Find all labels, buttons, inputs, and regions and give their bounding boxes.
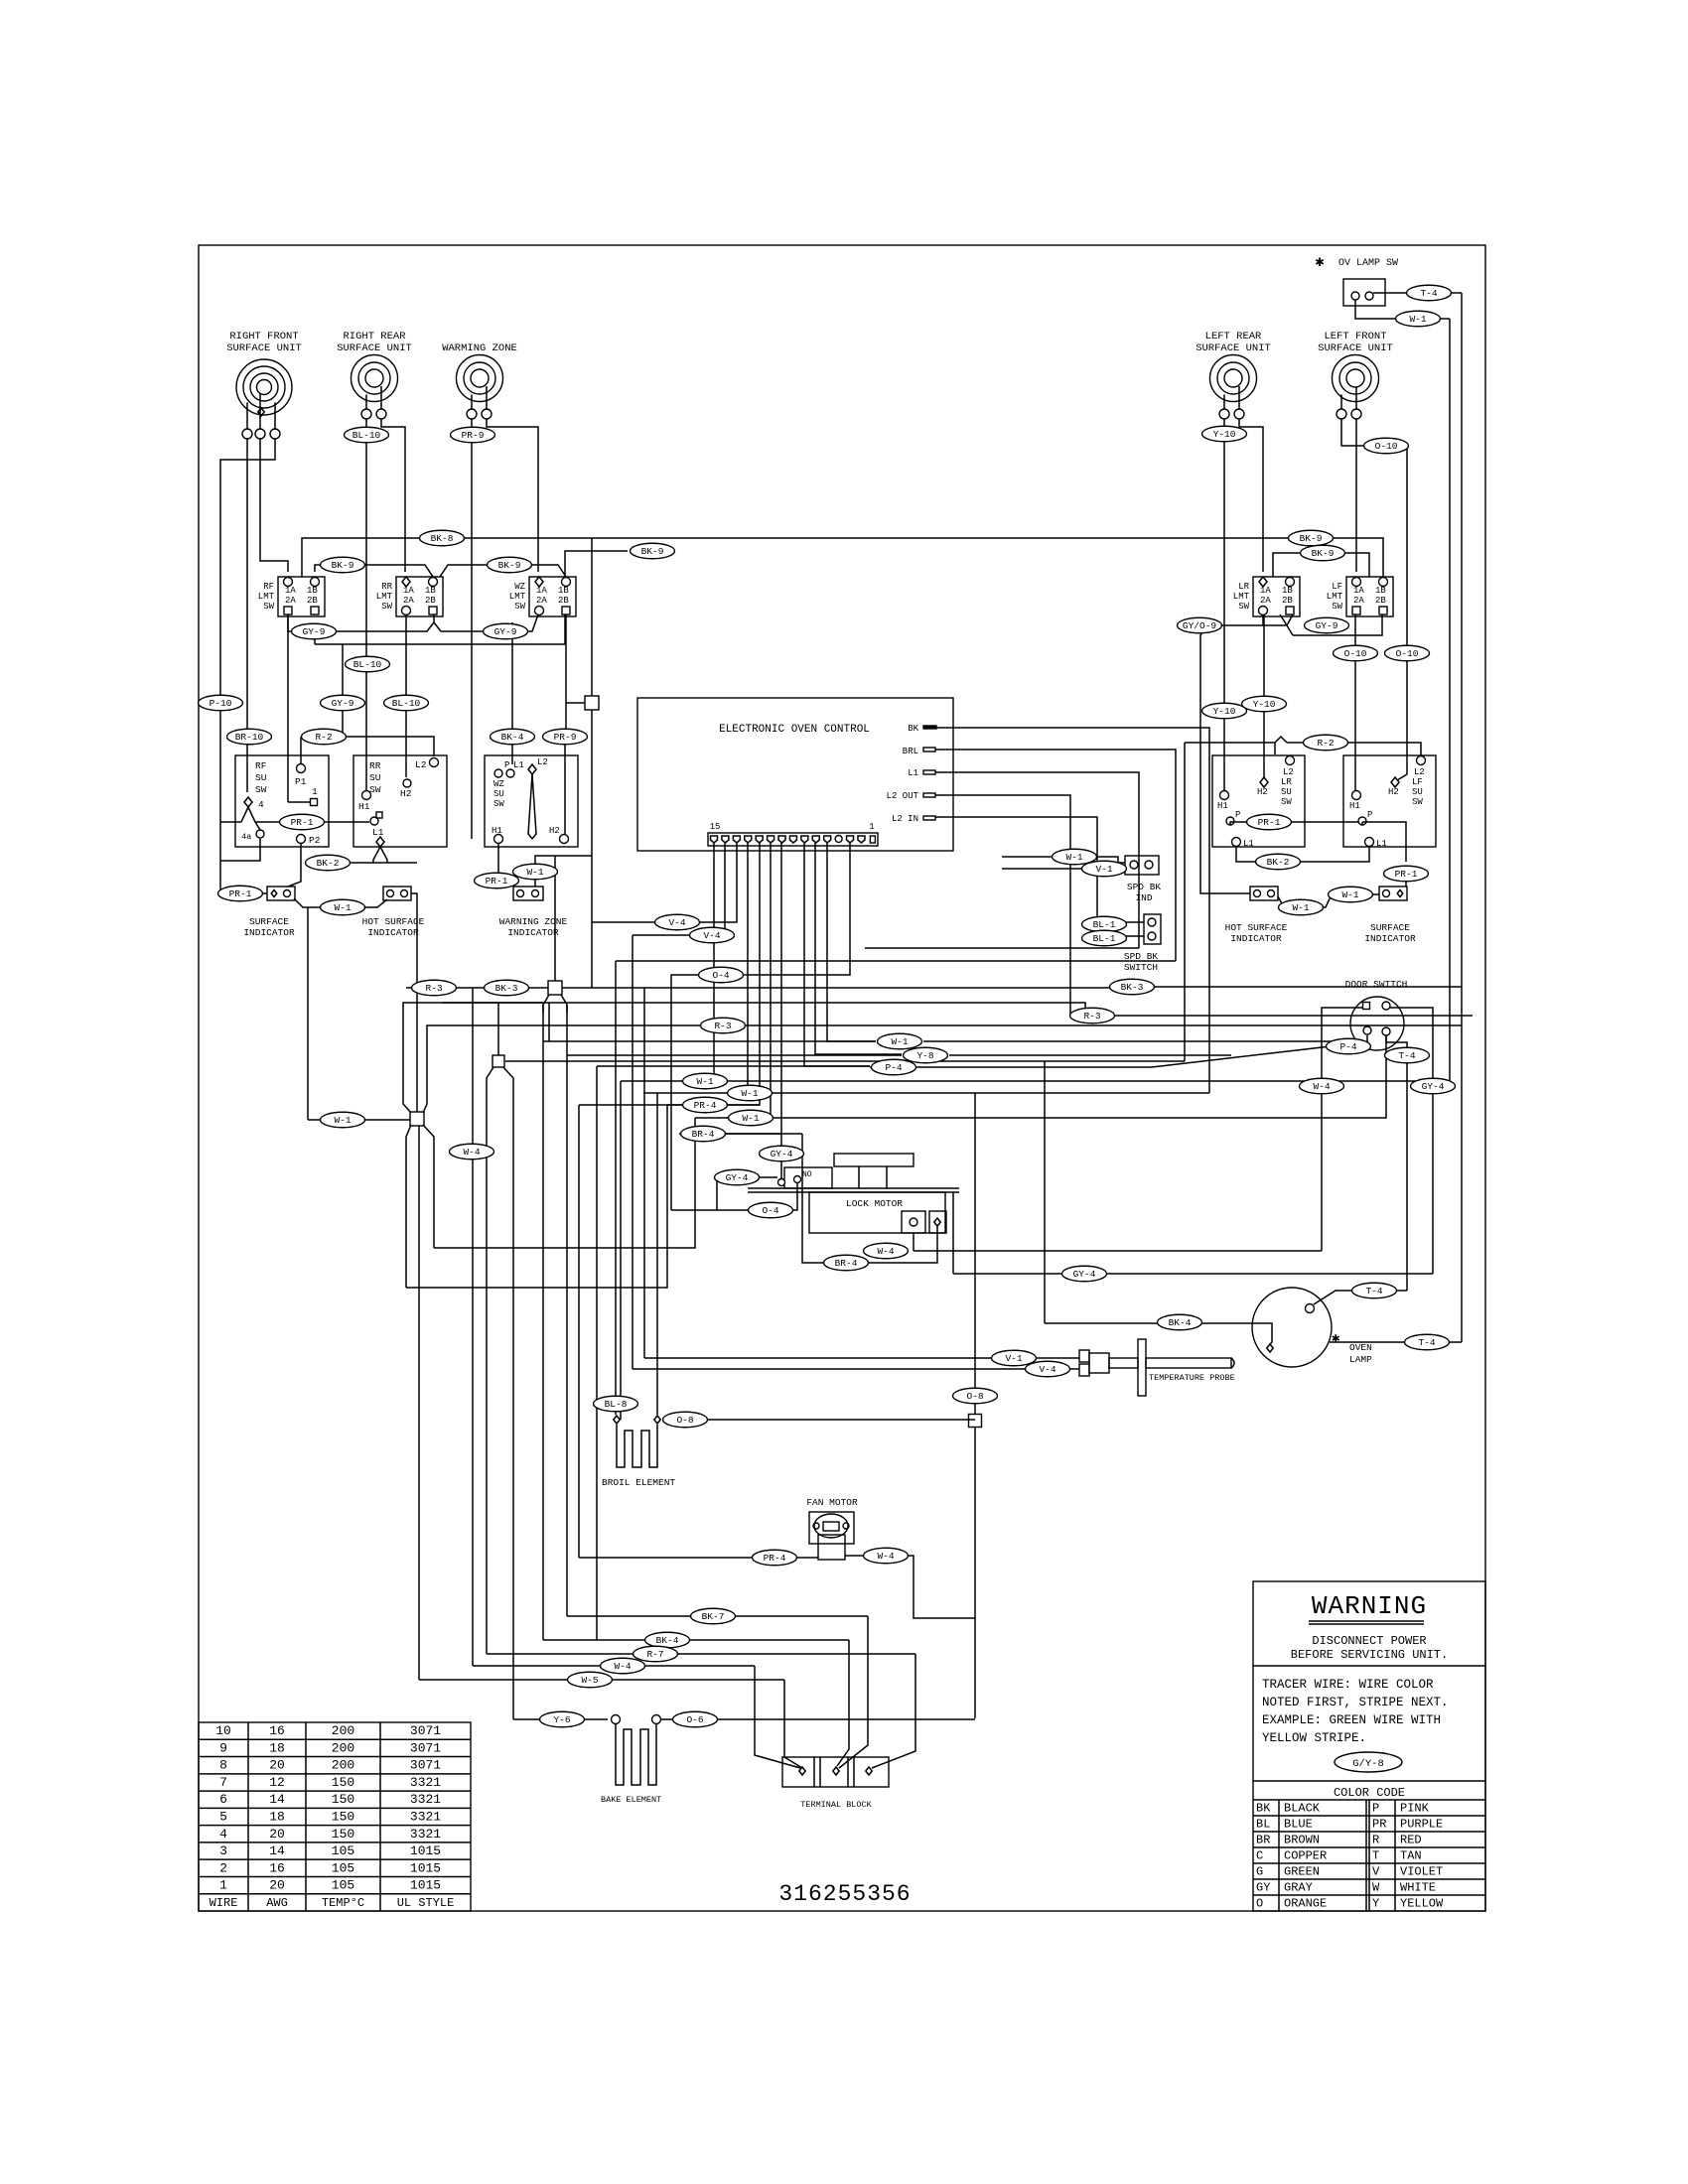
svg-text:BR-4: BR-4 xyxy=(692,1129,715,1140)
SPD BK SWITCH box xyxy=(1144,914,1161,944)
svg-text:NOTED FIRST, STRIPE NEXT.: NOTED FIRST, STRIPE NEXT. xyxy=(1262,1696,1449,1709)
svg-text:150: 150 xyxy=(332,1810,354,1825)
wire WZ H1 to indicator xyxy=(497,844,499,887)
wire PR-1 long line through RF RR xyxy=(220,821,241,823)
wire T-4 from ov lamp sw xyxy=(1373,292,1462,294)
svg-text:3071: 3071 xyxy=(410,1740,441,1755)
svg-text:SW: SW xyxy=(1281,797,1292,807)
svg-text:2B: 2B xyxy=(1375,596,1386,606)
wire O-8 line xyxy=(654,1416,660,1424)
svg-text:VIOLET: VIOLET xyxy=(1400,1865,1443,1879)
wire LR LMT 2A bottom down xyxy=(1262,614,1264,625)
svg-text:SURFACE: SURFACE xyxy=(249,916,289,927)
wire V-4 line upper xyxy=(654,921,700,923)
svg-text:12: 12 xyxy=(269,1775,285,1790)
RF surface unit switch xyxy=(235,755,329,847)
wire O-6 line xyxy=(661,1718,975,1720)
wire rerouting horizontals xyxy=(406,1105,667,1288)
svg-text:BL-10: BL-10 xyxy=(353,659,382,670)
svg-text:BK-3: BK-3 xyxy=(1121,982,1144,993)
wire PR-9 second bus WZ LMT 2B to WZ SU SW H2 xyxy=(565,614,566,835)
svg-text:4a: 4a xyxy=(241,832,251,842)
svg-text:W: W xyxy=(1372,1881,1380,1895)
svg-text:105: 105 xyxy=(332,1843,354,1858)
svg-text:OVEN: OVEN xyxy=(1349,1342,1372,1353)
wire door switch TL pin W-4 xyxy=(1322,1008,1362,1251)
svg-text:1: 1 xyxy=(869,822,874,832)
svg-text:GY-9: GY-9 xyxy=(332,698,354,709)
svg-text:LMT: LMT xyxy=(376,592,393,602)
svg-text:1A: 1A xyxy=(536,586,547,596)
svg-text:O-10: O-10 xyxy=(1396,648,1419,659)
wire R-2 right link xyxy=(1185,742,1275,744)
wire Y-10 second bus xyxy=(1263,614,1265,777)
svg-text:L2: L2 xyxy=(537,757,548,767)
wire RF P1 up to R-2 xyxy=(300,737,302,764)
svg-text:PR-4: PR-4 xyxy=(694,1100,717,1111)
wire LF LMT 2A bottom to O-10 bus down xyxy=(1354,614,1356,790)
svg-text:316255356: 316255356 xyxy=(778,1881,911,1907)
wire WZ SU SW L2 internals xyxy=(528,774,532,839)
wire WZ coil right lead to WZ LMT 1A xyxy=(487,419,538,572)
svg-text:RF: RF xyxy=(255,760,267,771)
svg-text:L2 OUT: L2 OUT xyxy=(887,791,919,801)
svg-text:SW: SW xyxy=(514,602,525,612)
wire RF terminal 1 link xyxy=(288,801,310,803)
svg-text:WARMING ZONE: WARMING ZONE xyxy=(442,342,517,354)
svg-text:T-4: T-4 xyxy=(1365,1286,1382,1297)
wire BK-9 right link xyxy=(1273,553,1369,577)
svg-text:PR-1: PR-1 xyxy=(291,817,314,828)
wire GY-4 left to NO xyxy=(717,1176,777,1178)
svg-text:LEFT REAR: LEFT REAR xyxy=(1205,331,1262,342)
wire GY-9 second bus xyxy=(315,614,565,644)
svg-text:O-4: O-4 xyxy=(762,1205,778,1216)
svg-text:3071: 3071 xyxy=(410,1723,441,1738)
wire EOC pin13 drop xyxy=(700,843,737,922)
wire RF coil mid lead to RF LMT 1A xyxy=(260,439,288,572)
svg-text:5: 5 xyxy=(219,1810,227,1825)
svg-text:RR: RR xyxy=(381,582,392,592)
svg-text:W-1: W-1 xyxy=(1292,902,1309,913)
wire W-1 right indicators xyxy=(1278,894,1379,907)
wire RR L1 legs to BK-2 xyxy=(373,847,380,863)
svg-text:L1: L1 xyxy=(908,768,918,778)
svg-text:L2 IN: L2 IN xyxy=(892,814,918,824)
svg-text:LMT: LMT xyxy=(258,592,275,602)
wire vertical 571 down to BK-7 line xyxy=(566,1005,568,1616)
hot surface indicator right xyxy=(1250,887,1278,900)
RR surface unit switch xyxy=(353,755,447,847)
svg-text:O-8: O-8 xyxy=(966,1391,983,1402)
svg-text:BK-2: BK-2 xyxy=(1267,857,1290,868)
wire RR coil left lead BL-10 bus to RR SU SW H1 xyxy=(365,419,367,790)
svg-text:BK-9: BK-9 xyxy=(1312,548,1335,559)
svg-text:LMT: LMT xyxy=(1327,592,1343,602)
wire V-1 V-4 to probe xyxy=(644,1357,1079,1359)
svg-text:RR: RR xyxy=(369,760,381,771)
svg-text:3321: 3321 xyxy=(410,1827,441,1842)
svg-text:P1: P1 xyxy=(295,776,307,787)
svg-text:V-4: V-4 xyxy=(703,930,720,941)
wire V-1 vertical xyxy=(643,988,645,1358)
svg-text:2A: 2A xyxy=(536,596,547,606)
wire BK-8 long bus xyxy=(302,538,1383,577)
svg-text:18: 18 xyxy=(269,1810,285,1825)
wire W-1 line 4 xyxy=(681,1080,1450,1082)
svg-text:105: 105 xyxy=(332,1878,354,1893)
wire GY-4 to NO xyxy=(780,1134,782,1178)
svg-text:W-4: W-4 xyxy=(463,1147,480,1158)
svg-text:H1: H1 xyxy=(1217,801,1228,811)
svg-text:SW: SW xyxy=(263,602,274,612)
svg-text:1A: 1A xyxy=(1260,586,1271,596)
svg-text:SURFACE UNIT: SURFACE UNIT xyxy=(226,342,302,354)
svg-text:LR: LR xyxy=(1281,777,1292,787)
svg-text:SW: SW xyxy=(255,784,267,795)
svg-text:R-3: R-3 xyxy=(1083,1011,1100,1022)
svg-text:BK: BK xyxy=(1256,1802,1271,1816)
svg-text:INDICATOR: INDICATOR xyxy=(1230,933,1282,944)
wire L2 IN pin run xyxy=(935,817,1097,918)
wire W-1 warning zone xyxy=(535,856,592,887)
svg-text:R-3: R-3 xyxy=(425,983,442,994)
svg-text:3071: 3071 xyxy=(410,1758,441,1773)
wire W-4 vertical xyxy=(472,988,474,1666)
wire BK-3 horizontal xyxy=(865,947,1139,949)
svg-text:H1: H1 xyxy=(358,801,370,812)
svg-text:14: 14 xyxy=(269,1792,285,1807)
svg-text:COPPER: COPPER xyxy=(1284,1849,1327,1863)
svg-text:2A: 2A xyxy=(1353,596,1364,606)
wire vertical 547 down to BK-4 line xyxy=(542,1005,544,1640)
svg-text:W-1: W-1 xyxy=(1341,889,1358,900)
svg-text:H2: H2 xyxy=(400,788,412,799)
svg-text:V-4: V-4 xyxy=(1039,1364,1055,1375)
svg-text:BK-7: BK-7 xyxy=(702,1611,725,1622)
svg-text:P-10: P-10 xyxy=(210,698,232,709)
svg-text:G: G xyxy=(1256,1865,1263,1879)
RR limit switch xyxy=(396,577,443,616)
svg-text:R: R xyxy=(1372,1834,1379,1847)
svg-text:LMT: LMT xyxy=(1233,592,1250,602)
svg-text:LEFT FRONT: LEFT FRONT xyxy=(1324,331,1386,342)
svg-text:2A: 2A xyxy=(1260,596,1271,606)
wire W-1 line 6 xyxy=(727,1036,1386,1118)
svg-text:HOT SURFACE: HOT SURFACE xyxy=(1225,922,1288,933)
svg-text:LR: LR xyxy=(1238,582,1249,592)
svg-text:RIGHT REAR: RIGHT REAR xyxy=(343,331,406,342)
svg-text:1015: 1015 xyxy=(410,1878,441,1893)
svg-text:DOOR SWITCH: DOOR SWITCH xyxy=(1345,979,1408,990)
svg-text:O-6: O-6 xyxy=(686,1714,703,1725)
svg-text:WARNING: WARNING xyxy=(1312,1591,1427,1621)
svg-text:GY/O-9: GY/O-9 xyxy=(1183,620,1217,631)
svg-text:LAMP: LAMP xyxy=(1349,1354,1372,1365)
svg-text:GRAY: GRAY xyxy=(1284,1881,1313,1895)
wire V-4 line lower xyxy=(633,934,725,936)
svg-text:2A: 2A xyxy=(285,596,296,606)
svg-text:Y-10: Y-10 xyxy=(1213,706,1236,717)
svg-text:R-3: R-3 xyxy=(714,1021,731,1031)
wire W-1 line mid xyxy=(543,1040,876,1042)
wire L2 OUT pin run xyxy=(935,795,1070,1016)
svg-text:1B: 1B xyxy=(425,586,436,596)
svg-text:TAN: TAN xyxy=(1400,1849,1422,1863)
svg-text:FAN MOTOR: FAN MOTOR xyxy=(806,1497,858,1508)
wire BK-9 bus left xyxy=(315,565,433,577)
svg-text:1B: 1B xyxy=(1282,586,1293,596)
svg-text:SU: SU xyxy=(1412,787,1423,797)
wire EOC pin6 drop xyxy=(827,843,876,1041)
wire GY/O-9 into hot surface ind xyxy=(1200,887,1250,893)
svg-text:3321: 3321 xyxy=(410,1810,441,1825)
wire W-4 under lock motor xyxy=(913,1233,914,1251)
wire RF coil left lead to P-10 bus xyxy=(220,439,247,887)
svg-text:OV LAMP SW: OV LAMP SW xyxy=(1338,258,1398,269)
svg-text:BK-9: BK-9 xyxy=(332,560,354,571)
wire LR coil right lead to LR LMT 1A xyxy=(1239,419,1263,572)
svg-text:BL-10: BL-10 xyxy=(392,698,421,709)
svg-text:BL: BL xyxy=(1256,1818,1270,1832)
svg-text:1A: 1A xyxy=(1353,586,1364,596)
svg-text:SURFACE: SURFACE xyxy=(1370,922,1410,933)
svg-text:BL-10: BL-10 xyxy=(352,430,381,441)
svg-text:200: 200 xyxy=(332,1723,354,1738)
svg-text:2B: 2B xyxy=(425,596,436,606)
wire RF 4a drop xyxy=(220,839,260,861)
wire GY-9 bus down mid xyxy=(342,644,344,737)
svg-text:W-4: W-4 xyxy=(1313,1081,1330,1092)
svg-text:H2: H2 xyxy=(1388,787,1399,797)
svg-text:W-5: W-5 xyxy=(581,1675,598,1686)
svg-text:ORANGE: ORANGE xyxy=(1284,1897,1327,1911)
svg-text:GY: GY xyxy=(1256,1881,1270,1895)
svg-text:BLACK: BLACK xyxy=(1284,1802,1321,1816)
svg-text:NO: NO xyxy=(802,1170,812,1179)
svg-text:1B: 1B xyxy=(1375,586,1386,596)
svg-text:BK-8: BK-8 xyxy=(431,533,454,544)
svg-text:GREEN: GREEN xyxy=(1284,1865,1320,1879)
lock motor cam xyxy=(834,1154,914,1166)
svg-text:T-4: T-4 xyxy=(1398,1050,1415,1061)
svg-text:BK-3: BK-3 xyxy=(495,983,518,994)
WZ limit switch xyxy=(529,577,576,616)
wire T-4 to oven lamp xyxy=(1314,1291,1407,1304)
svg-text:BK-2: BK-2 xyxy=(317,858,340,869)
wire EOC pin9 drop xyxy=(723,843,781,1134)
svg-text:BK-9: BK-9 xyxy=(498,560,521,571)
svg-text:W-1: W-1 xyxy=(742,1113,759,1124)
svg-text:W-1: W-1 xyxy=(334,1115,351,1126)
broil element xyxy=(617,1425,657,1467)
svg-text:GY-4: GY-4 xyxy=(726,1172,749,1183)
wire vertical 1193 xyxy=(1184,743,1186,1061)
svg-text:O-10: O-10 xyxy=(1344,648,1367,659)
svg-text:RIGHT FRONT: RIGHT FRONT xyxy=(229,331,298,342)
svg-text:L2: L2 xyxy=(415,759,427,770)
svg-text:SPD BK: SPD BK xyxy=(1124,951,1159,962)
svg-text:PR-1: PR-1 xyxy=(1258,817,1281,828)
wire R-7 line xyxy=(487,1653,915,1655)
svg-text:✱: ✱ xyxy=(1332,1331,1340,1347)
svg-text:4: 4 xyxy=(219,1827,227,1842)
svg-text:L1: L1 xyxy=(372,827,384,838)
svg-text:O: O xyxy=(1256,1897,1263,1911)
svg-text:P-4: P-4 xyxy=(1339,1041,1356,1052)
svg-text:1: 1 xyxy=(219,1878,227,1893)
svg-text:SW: SW xyxy=(1238,602,1249,612)
wire PR-1 link LR P to LF P xyxy=(1230,822,1234,825)
svg-text:✱: ✱ xyxy=(1315,254,1324,271)
svg-text:W-1: W-1 xyxy=(526,867,543,878)
wire GY-9 bus left xyxy=(288,614,538,631)
svg-text:PR-9: PR-9 xyxy=(554,732,577,743)
wire W-1 horizontal to junction A xyxy=(308,1119,410,1121)
wire gauge table xyxy=(199,1722,471,1911)
oven lamp xyxy=(1252,1288,1332,1367)
svg-text:WZ: WZ xyxy=(493,779,504,789)
svg-text:T-4: T-4 xyxy=(1420,288,1437,299)
border frame xyxy=(199,245,1485,1911)
svg-text:L1: L1 xyxy=(1376,839,1387,849)
wire WZ coil left lead PR-9 bus xyxy=(471,419,473,839)
wire BK-4 bus down to WZ SU SW xyxy=(511,622,513,764)
svg-text:LOCK MOTOR: LOCK MOTOR xyxy=(846,1198,903,1209)
wire PR-4 to fan xyxy=(579,1557,818,1559)
svg-text:LF: LF xyxy=(1412,777,1423,787)
svg-text:HOT SURFACE: HOT SURFACE xyxy=(362,916,425,927)
surface indicator right xyxy=(1379,887,1407,900)
svg-text:LMT: LMT xyxy=(509,592,526,602)
WZ surface unit switch xyxy=(485,755,578,847)
svg-text:O-8: O-8 xyxy=(676,1415,693,1426)
junction node B xyxy=(548,981,562,995)
svg-text:W-4: W-4 xyxy=(877,1246,894,1257)
wire Y-6 to bake xyxy=(513,1718,608,1720)
svg-text:H2: H2 xyxy=(549,826,560,836)
svg-text:PR-1: PR-1 xyxy=(1395,869,1418,880)
LF limit switch xyxy=(1346,577,1393,616)
svg-text:GY-9: GY-9 xyxy=(494,626,517,637)
svg-text:PINK: PINK xyxy=(1400,1802,1430,1816)
svg-text:1A: 1A xyxy=(403,586,414,596)
svg-text:Y-10: Y-10 xyxy=(1213,429,1236,440)
wire Y-8 line xyxy=(567,1054,902,1056)
svg-text:R-2: R-2 xyxy=(315,732,332,743)
svg-text:YELLOW STRIPE.: YELLOW STRIPE. xyxy=(1262,1731,1366,1745)
svg-text:14: 14 xyxy=(269,1843,285,1858)
svg-text:P: P xyxy=(1372,1802,1379,1816)
svg-text:1B: 1B xyxy=(558,586,569,596)
svg-text:INDICATOR: INDICATOR xyxy=(1364,933,1416,944)
svg-text:6: 6 xyxy=(219,1792,227,1807)
wire R-3 mid line xyxy=(635,1024,714,1026)
svg-text:2B: 2B xyxy=(307,596,318,606)
svg-text:W-4: W-4 xyxy=(614,1661,631,1672)
wire EOC pin7 drop xyxy=(815,843,902,1054)
svg-text:TEMPERATURE PROBE: TEMPERATURE PROBE xyxy=(1149,1373,1235,1383)
svg-text:W-1: W-1 xyxy=(334,902,351,913)
svg-text:BK-9: BK-9 xyxy=(1300,533,1323,544)
wire R-3 right line xyxy=(442,1003,1085,1016)
RF limit switch xyxy=(278,577,325,616)
svg-text:H1: H1 xyxy=(492,826,502,836)
svg-text:P: P xyxy=(504,760,509,770)
svg-text:L1: L1 xyxy=(513,760,524,770)
wire BR-4 under lock motor xyxy=(802,1134,937,1263)
svg-text:RF: RF xyxy=(263,582,274,592)
svg-text:V-1: V-1 xyxy=(1095,864,1112,875)
svg-text:8: 8 xyxy=(219,1758,227,1773)
svg-text:BR-4: BR-4 xyxy=(835,1258,858,1269)
wire vertical 601 down xyxy=(597,1065,870,1067)
svg-text:GY-4: GY-4 xyxy=(771,1149,793,1160)
svg-text:105: 105 xyxy=(332,1860,354,1875)
wire door switch TR pin GY-4 xyxy=(1390,1008,1433,1274)
wire vertical 982 mid xyxy=(974,1093,976,1415)
wire BR-10 bus down to RF SU SW 4 xyxy=(246,460,248,792)
svg-text:16: 16 xyxy=(269,1723,285,1738)
svg-text:PR: PR xyxy=(1372,1818,1386,1832)
svg-text:INDICATOR: INDICATOR xyxy=(507,927,559,938)
svg-text:18: 18 xyxy=(269,1740,285,1755)
wire BK-7 line xyxy=(567,1615,868,1617)
svg-text:2B: 2B xyxy=(1282,596,1293,606)
svg-text:L2: L2 xyxy=(1414,767,1425,777)
svg-text:P-4: P-4 xyxy=(885,1062,902,1073)
wire junction node right of WZ xyxy=(585,696,599,710)
electronic oven control box xyxy=(637,698,953,851)
svg-text:W-1: W-1 xyxy=(696,1076,713,1087)
svg-text:UL STYLE: UL STYLE xyxy=(397,1896,455,1910)
svg-text:2B: 2B xyxy=(558,596,569,606)
wire BK-9 stub WZ xyxy=(565,551,628,577)
svg-text:L2: L2 xyxy=(1283,767,1294,777)
svg-text:20: 20 xyxy=(269,1827,285,1842)
wire GY-9 right bus xyxy=(1200,614,1287,887)
svg-text:INDICATOR: INDICATOR xyxy=(367,927,419,938)
warning zone indicator xyxy=(513,887,543,900)
svg-text:GY-4: GY-4 xyxy=(1073,1269,1096,1280)
svg-text:10: 10 xyxy=(215,1723,231,1738)
wire W-1 to SPD BK IND xyxy=(1002,857,1125,863)
svg-text:V: V xyxy=(1372,1865,1380,1879)
svg-text:TRACER WIRE: WIRE COLOR: TRACER WIRE: WIRE COLOR xyxy=(1262,1678,1434,1692)
svg-text:PR-4: PR-4 xyxy=(764,1553,786,1564)
lock motor NO contact xyxy=(784,1167,832,1188)
svg-text:GY-4: GY-4 xyxy=(1422,1081,1445,1092)
wire BRL pin run xyxy=(935,750,1176,961)
svg-text:BAKE ELEMENT: BAKE ELEMENT xyxy=(601,1795,661,1805)
wire BK-4 to oven lamp xyxy=(1045,1323,1272,1344)
svg-text:SU: SU xyxy=(369,772,381,783)
SPD BK IND box xyxy=(1125,856,1159,875)
wire EOC pin10 drop xyxy=(695,843,771,1118)
wire RF LMT 2A down into RF SU SW xyxy=(287,614,289,802)
svg-text:7: 7 xyxy=(219,1775,227,1790)
LR surface unit switch xyxy=(1212,755,1305,847)
svg-text:W-4: W-4 xyxy=(877,1551,894,1562)
wire BL-1 pair xyxy=(1097,918,1144,922)
svg-text:EXAMPLE: GREEN WIRE WITH: EXAMPLE: GREEN WIRE WITH xyxy=(1262,1713,1441,1727)
svg-text:INDICATOR: INDICATOR xyxy=(243,927,295,938)
svg-text:3321: 3321 xyxy=(410,1775,441,1790)
svg-text:R-7: R-7 xyxy=(646,1649,663,1660)
wire LF P down to surface indicator xyxy=(1361,822,1363,825)
svg-text:BLUE: BLUE xyxy=(1284,1818,1313,1832)
svg-text:P: P xyxy=(1235,810,1240,820)
